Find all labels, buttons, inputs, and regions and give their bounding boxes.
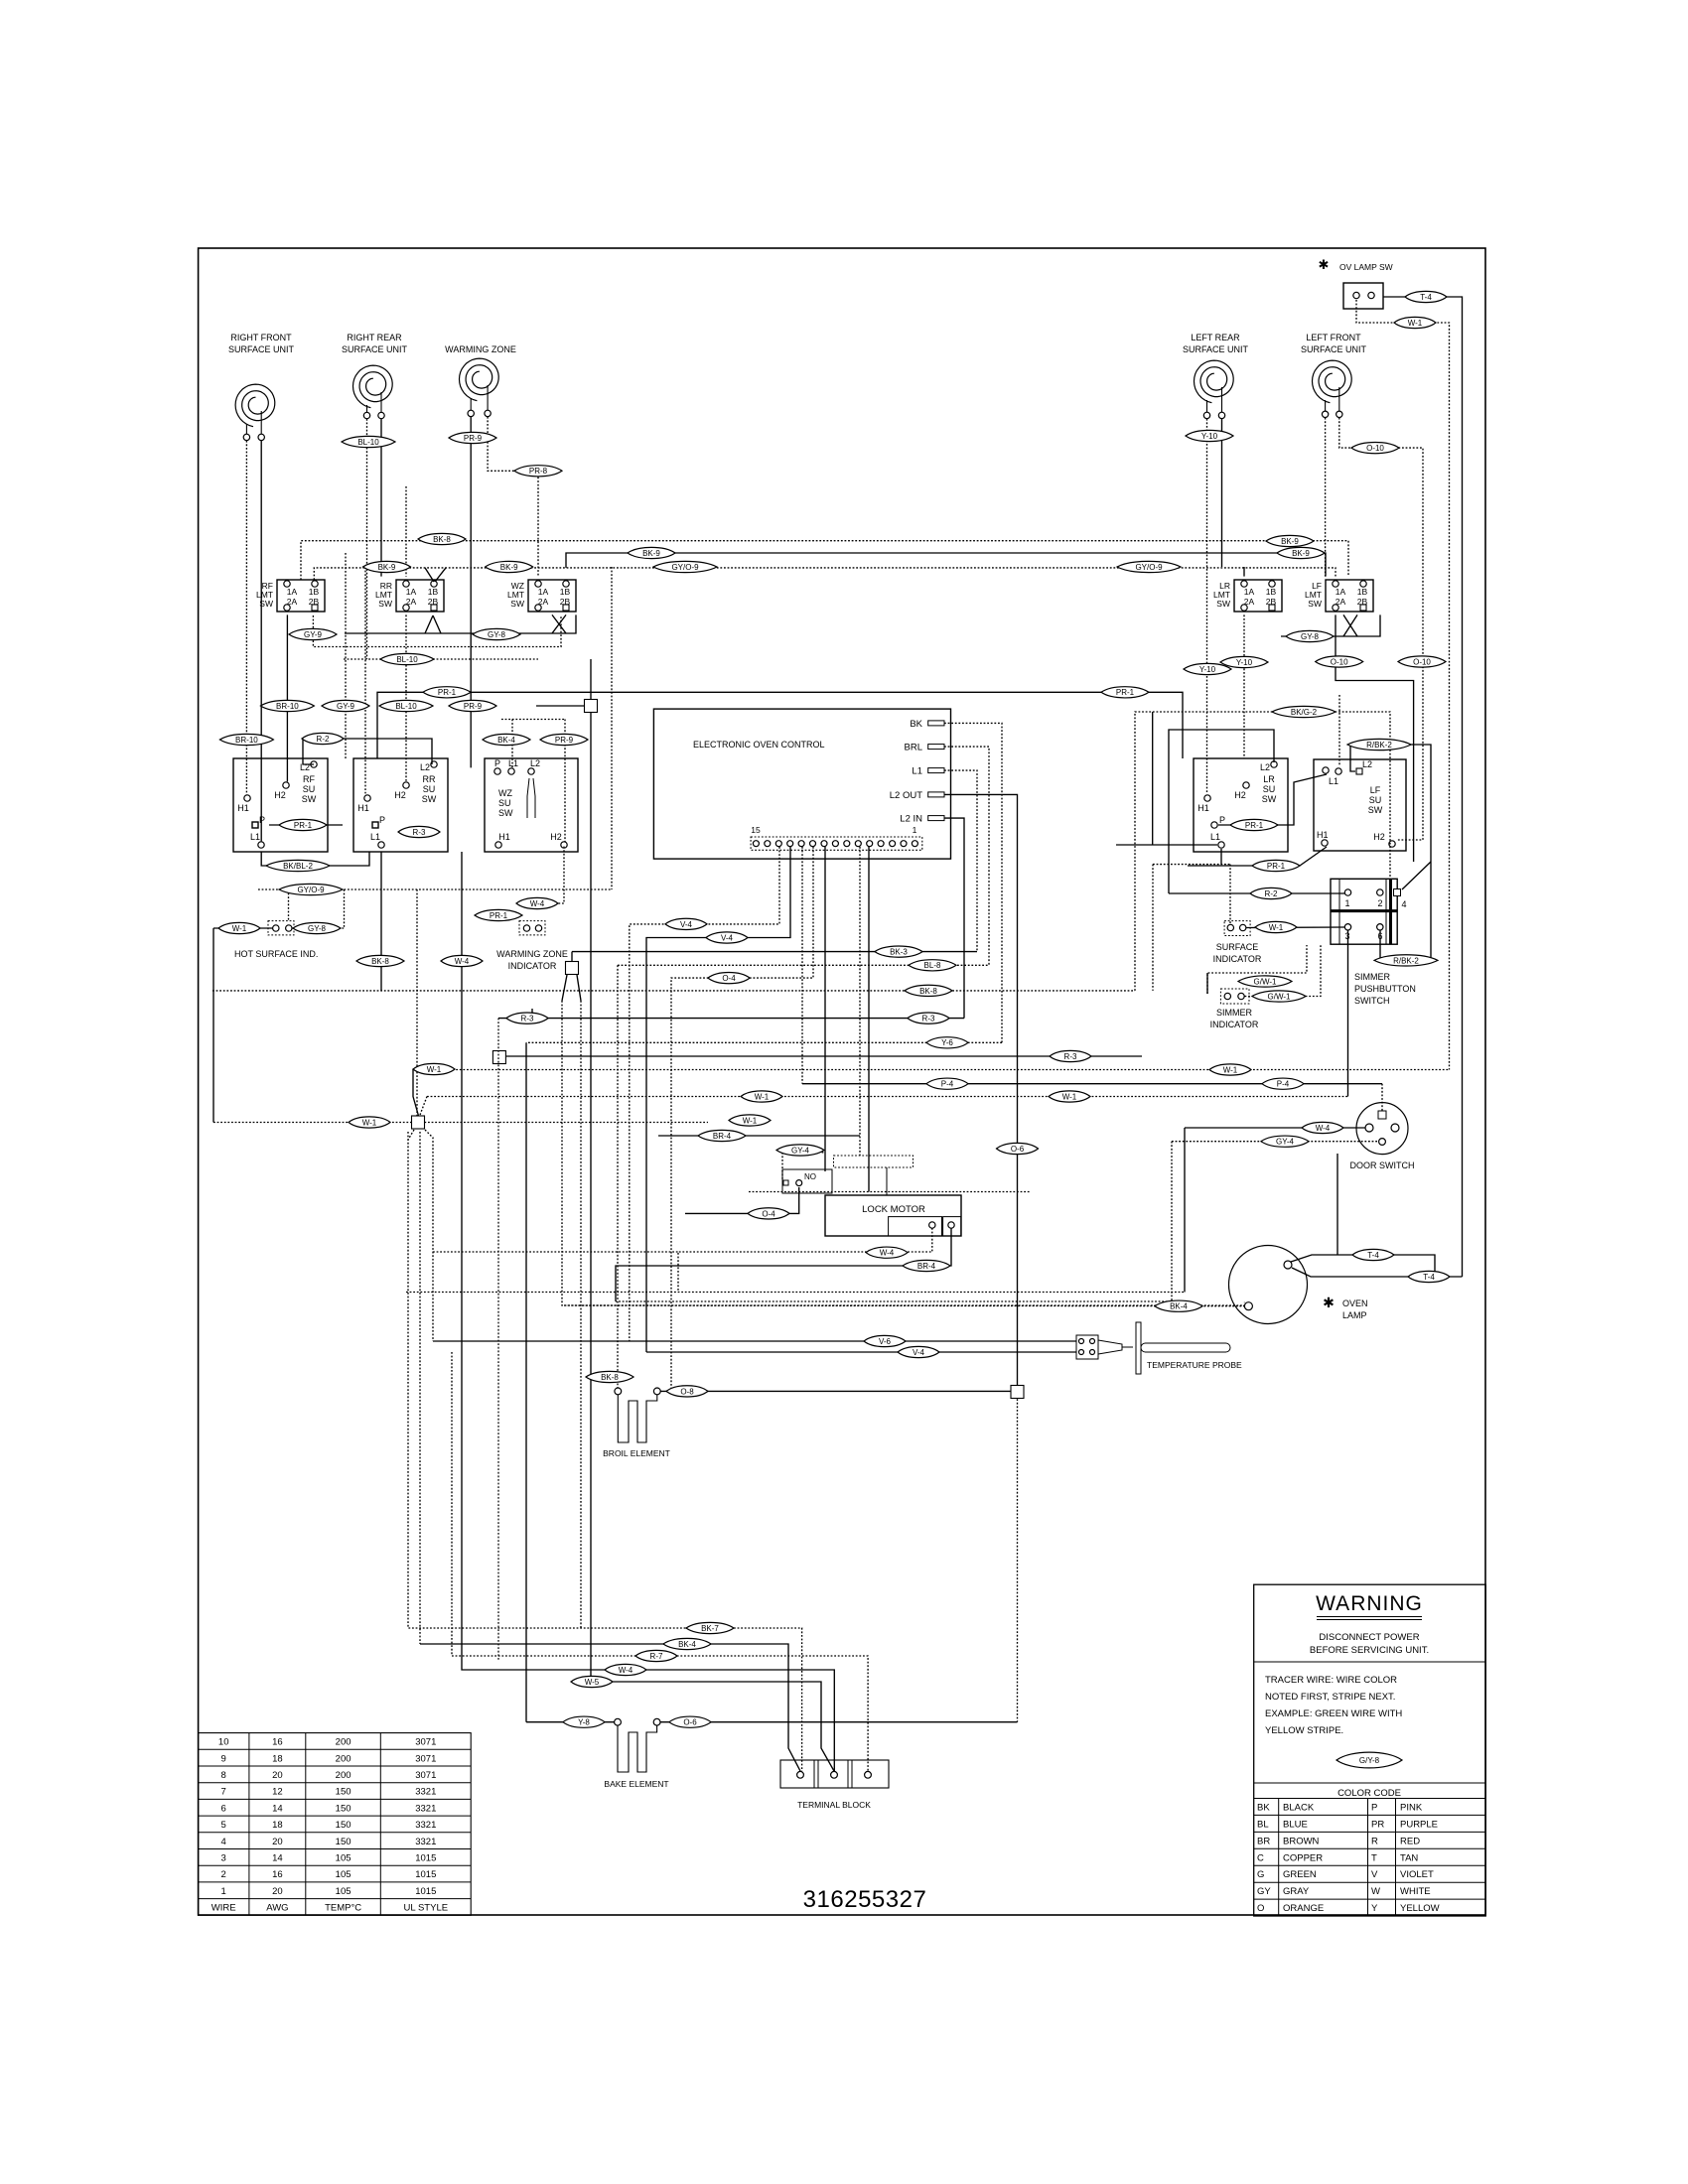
svg-text:P: P bbox=[1371, 1803, 1377, 1814]
svg-text:P: P bbox=[379, 815, 385, 825]
wire BL-10 low segment bbox=[344, 658, 538, 660]
wire label R/BK-2 bbox=[1347, 739, 1411, 750]
wire label BR-10 bbox=[219, 734, 273, 745]
electronic oven control U1 bbox=[653, 709, 950, 859]
wire BK from EOC bbox=[944, 723, 1002, 1042]
svg-text:GY: GY bbox=[1257, 1886, 1271, 1897]
wire 585 down bbox=[580, 1001, 582, 1628]
svg-text:V-6: V-6 bbox=[879, 1337, 892, 1346]
svg-text:O-4: O-4 bbox=[762, 1209, 775, 1218]
svg-text:PR: PR bbox=[1371, 1819, 1384, 1830]
svg-text:G: G bbox=[1257, 1869, 1264, 1880]
svg-text:WIRE: WIRE bbox=[211, 1903, 236, 1914]
wire label P-4 bbox=[1262, 1078, 1304, 1089]
wire BK-7 bbox=[408, 1132, 802, 1771]
svg-text:W-1: W-1 bbox=[1269, 923, 1284, 932]
wire W-4 bottom bbox=[462, 852, 834, 1771]
wire label R/BK-2 bbox=[1374, 955, 1438, 966]
hot surface indicator bbox=[234, 921, 318, 959]
svg-text:LR: LR bbox=[1263, 774, 1275, 784]
wire T-4 lamp upper bbox=[1291, 1255, 1435, 1277]
svg-text:W-1: W-1 bbox=[1408, 319, 1423, 328]
svg-text:LEFT REAR: LEFT REAR bbox=[1191, 333, 1240, 342]
svg-text:PR-1: PR-1 bbox=[1267, 862, 1286, 871]
svg-text:SURFACE UNIT: SURFACE UNIT bbox=[228, 344, 295, 354]
svg-text:RED: RED bbox=[1400, 1836, 1420, 1846]
wire W-1 funnel bbox=[413, 1069, 419, 1116]
wire BK-4 bottom vertical bbox=[419, 1132, 421, 1644]
svg-text:R-3: R-3 bbox=[413, 828, 426, 837]
wire funnel junction legs bbox=[408, 1130, 414, 1140]
wire label BR-10 bbox=[260, 700, 314, 711]
svg-text:SW: SW bbox=[422, 794, 437, 804]
wire simmer pin3 drop bbox=[1347, 930, 1349, 1097]
wire BL-10 RR limit to H2 bbox=[405, 614, 407, 781]
svg-text:BLUE: BLUE bbox=[1283, 1819, 1308, 1830]
wire LF L1 drop bbox=[1338, 695, 1340, 766]
wire label R-3 bbox=[398, 826, 440, 837]
svg-text:P-4: P-4 bbox=[941, 1080, 954, 1089]
svg-text:BR: BR bbox=[1257, 1836, 1270, 1846]
LF limit switch bbox=[1305, 580, 1373, 612]
svg-text:O-10: O-10 bbox=[1366, 444, 1384, 453]
svg-text:105: 105 bbox=[336, 1869, 352, 1880]
svg-text:1B: 1B bbox=[560, 587, 571, 597]
svg-text:1015: 1015 bbox=[415, 1886, 436, 1897]
svg-text:316255327: 316255327 bbox=[803, 1886, 927, 1913]
svg-text:20: 20 bbox=[272, 1886, 283, 1897]
wire label BK-8 bbox=[905, 985, 952, 996]
svg-text:WZ: WZ bbox=[498, 788, 512, 798]
svg-text:GY-4: GY-4 bbox=[791, 1146, 809, 1155]
wire BR-4 seg bbox=[658, 1135, 860, 1137]
svg-text:GY-9: GY-9 bbox=[337, 702, 354, 711]
svg-text:COLOR CODE: COLOR CODE bbox=[1337, 1788, 1401, 1799]
wire PR-4 dotted link bbox=[1153, 864, 1230, 866]
wire V-4 t13 bbox=[630, 847, 779, 1341]
svg-text:RR: RR bbox=[423, 774, 436, 784]
wire LR coil right lead bbox=[1221, 419, 1223, 567]
svg-text:R-3: R-3 bbox=[521, 1015, 534, 1024]
wire W-1 junction bus bbox=[213, 1122, 708, 1124]
svg-text:Y-8: Y-8 bbox=[578, 1718, 590, 1727]
svg-text:3071: 3071 bbox=[415, 1737, 436, 1748]
svg-text:BR-10: BR-10 bbox=[235, 736, 258, 745]
wire RR 2B tent b bbox=[433, 615, 441, 633]
svg-text:1015: 1015 bbox=[415, 1869, 436, 1880]
wire BRL from EOC bbox=[944, 747, 989, 965]
lock motor bbox=[782, 1156, 961, 1236]
wire drop LR 1A bbox=[1243, 567, 1245, 577]
wire BK-9 bus bbox=[566, 553, 1326, 577]
svg-text:R-3: R-3 bbox=[922, 1015, 935, 1024]
svg-text:SWITCH: SWITCH bbox=[1354, 996, 1390, 1006]
svg-text:SU: SU bbox=[1369, 795, 1382, 805]
svg-text:BL-10: BL-10 bbox=[357, 438, 379, 447]
svg-text:9: 9 bbox=[221, 1753, 226, 1764]
svg-text:BL-10: BL-10 bbox=[396, 655, 418, 664]
svg-text:H2: H2 bbox=[394, 790, 406, 800]
svg-text:DOOR SWITCH: DOOR SWITCH bbox=[1350, 1160, 1415, 1170]
svg-text:1B: 1B bbox=[1266, 587, 1277, 597]
svg-text:3: 3 bbox=[221, 1853, 226, 1864]
wire WZ coil right lead to PR-8 bbox=[488, 417, 538, 577]
wire door leg bbox=[1336, 1154, 1338, 1255]
wire PR-1 LR P to LF P bbox=[1218, 774, 1327, 825]
svg-text:200: 200 bbox=[336, 1737, 352, 1748]
right front surface unit coil bbox=[228, 333, 295, 441]
svg-text:LOCK MOTOR: LOCK MOTOR bbox=[862, 1204, 925, 1215]
svg-text:O-10: O-10 bbox=[1413, 657, 1431, 666]
svg-text:WHITE: WHITE bbox=[1400, 1886, 1431, 1897]
svg-text:BK-3: BK-3 bbox=[890, 948, 908, 957]
svg-text:Y: Y bbox=[1371, 1903, 1378, 1914]
svg-text:COPPER: COPPER bbox=[1283, 1852, 1323, 1863]
wire W-1 hot surface bbox=[213, 927, 273, 929]
svg-text:W-1: W-1 bbox=[427, 1065, 442, 1074]
oven lamp switch bbox=[1319, 257, 1393, 309]
svg-text:LAMP: LAMP bbox=[1342, 1310, 1367, 1320]
svg-text:BROWN: BROWN bbox=[1283, 1836, 1320, 1846]
svg-text:R-7: R-7 bbox=[650, 1652, 663, 1661]
svg-text:T-4: T-4 bbox=[1420, 293, 1432, 302]
wire label O-4 bbox=[708, 972, 750, 983]
wire label BL-10 bbox=[379, 700, 433, 711]
svg-text:T-4: T-4 bbox=[1423, 1273, 1435, 1282]
wire G/W-1 lower bbox=[1245, 945, 1322, 997]
wire junction drop bbox=[591, 659, 834, 1771]
svg-text:SU: SU bbox=[498, 798, 511, 808]
svg-text:W-1: W-1 bbox=[1223, 1065, 1238, 1074]
wire label V-6 bbox=[864, 1335, 906, 1346]
wire label T-4 bbox=[1405, 291, 1447, 302]
svg-text:150: 150 bbox=[336, 1820, 352, 1831]
RF surface unit switch bbox=[233, 758, 328, 852]
wire label BK-4 bbox=[1155, 1300, 1202, 1311]
wire T-4 lamp lower bbox=[1292, 1268, 1463, 1277]
svg-text:2B: 2B bbox=[560, 597, 571, 607]
RR limit switch bbox=[375, 580, 444, 612]
wire V-4 t12 bbox=[646, 847, 790, 1352]
svg-text:R: R bbox=[1371, 1836, 1378, 1846]
svg-text:V: V bbox=[1371, 1869, 1378, 1880]
wire X cross RR top a bbox=[425, 568, 434, 582]
wire R/BK-2 top bbox=[1350, 745, 1431, 959]
wire PR-1 lower link bbox=[1188, 847, 1327, 866]
wire GY-4 door drop bbox=[616, 1142, 1172, 1301]
svg-text:BK-9: BK-9 bbox=[378, 563, 396, 572]
svg-text:18: 18 bbox=[272, 1820, 283, 1831]
svg-text:WARMING ZONE: WARMING ZONE bbox=[496, 949, 568, 959]
broil element bbox=[603, 1388, 670, 1458]
wire label W-4 bbox=[516, 897, 558, 908]
wire label V-4 bbox=[706, 932, 748, 943]
svg-text:W-4: W-4 bbox=[455, 957, 470, 966]
svg-text:2: 2 bbox=[221, 1869, 226, 1880]
wire BK-8 drop bbox=[380, 852, 382, 991]
wire label V-4 bbox=[898, 1346, 939, 1357]
wire junction D feed bbox=[416, 889, 418, 1117]
svg-text:SU: SU bbox=[423, 784, 436, 794]
svg-text:1: 1 bbox=[913, 825, 917, 835]
svg-text:✱: ✱ bbox=[1323, 1295, 1335, 1310]
wire T-4 from oven lamp switch bbox=[1383, 297, 1463, 1277]
svg-text:W-1: W-1 bbox=[1062, 1092, 1077, 1101]
wire label O-10 bbox=[1398, 656, 1446, 667]
svg-text:W-4: W-4 bbox=[530, 899, 545, 908]
svg-text:L1: L1 bbox=[370, 832, 380, 842]
svg-text:TEMPERATURE PROBE: TEMPERATURE PROBE bbox=[1147, 1360, 1242, 1370]
wire label V-4 bbox=[665, 918, 707, 929]
svg-text:G/W-1: G/W-1 bbox=[1268, 992, 1292, 1001]
wire door switch stem bbox=[1381, 1084, 1383, 1111]
svg-text:P: P bbox=[259, 815, 265, 825]
wire label O-6 bbox=[997, 1143, 1039, 1154]
svg-text:8: 8 bbox=[221, 1770, 226, 1781]
wire label BL-10 bbox=[380, 653, 434, 664]
svg-text:1A: 1A bbox=[287, 587, 298, 597]
svg-text:3321: 3321 bbox=[415, 1803, 436, 1814]
svg-text:SW: SW bbox=[1262, 794, 1277, 804]
left rear surface unit coil bbox=[1183, 333, 1249, 419]
wire label R-3 bbox=[506, 1013, 548, 1024]
svg-text:LEFT FRONT: LEFT FRONT bbox=[1306, 333, 1361, 342]
wire W-4 lock bbox=[678, 1228, 932, 1293]
svg-text:2A: 2A bbox=[287, 597, 298, 607]
wire Y-8 bake left bbox=[526, 1721, 615, 1723]
wire BL-8 bus bbox=[618, 964, 989, 966]
wire label W-1 bbox=[349, 1117, 390, 1128]
svg-text:16: 16 bbox=[272, 1737, 283, 1748]
wire simmer pin4 diag bbox=[1402, 862, 1431, 889]
svg-text:P: P bbox=[1219, 815, 1225, 825]
junction node D bbox=[412, 1116, 425, 1129]
wire LF coil left lead bbox=[1325, 418, 1327, 577]
wire label W-1 bbox=[729, 1115, 771, 1126]
wire label Y-8 bbox=[563, 1716, 605, 1727]
svg-text:L1: L1 bbox=[1210, 832, 1220, 842]
svg-text:BLACK: BLACK bbox=[1283, 1803, 1315, 1814]
svg-text:O-4: O-4 bbox=[722, 974, 736, 983]
wire label O-10 bbox=[1351, 442, 1399, 453]
svg-text:18: 18 bbox=[272, 1753, 283, 1764]
svg-text:TAN: TAN bbox=[1400, 1852, 1418, 1863]
svg-text:R-3: R-3 bbox=[1064, 1052, 1077, 1061]
svg-text:BK-8: BK-8 bbox=[371, 957, 389, 966]
svg-text:L1: L1 bbox=[250, 832, 260, 842]
wire label W-4 bbox=[441, 955, 483, 966]
svg-text:TERMINAL BLOCK: TERMINAL BLOCK bbox=[797, 1800, 871, 1810]
wire GY-9 vertical bbox=[345, 553, 347, 758]
wire label BK-3 bbox=[875, 946, 922, 957]
svg-text:ORANGE: ORANGE bbox=[1283, 1903, 1324, 1914]
wire label PR-9 bbox=[449, 432, 496, 443]
wire label BK/G-2 bbox=[1272, 706, 1336, 717]
wire R-2 bus bbox=[1169, 892, 1344, 894]
wire W-1 from oven lamp switch bbox=[1356, 300, 1450, 1070]
svg-text:EXAMPLE: GREEN WIRE WITH: EXAMPLE: GREEN WIRE WITH bbox=[1265, 1708, 1402, 1719]
junction node A bbox=[585, 700, 598, 713]
svg-text:GY/O-9: GY/O-9 bbox=[297, 886, 325, 894]
svg-text:R/BK-2: R/BK-2 bbox=[1366, 741, 1392, 750]
oven lamp bbox=[1229, 1246, 1368, 1324]
wire gauge table bbox=[199, 1733, 472, 1916]
svg-text:150: 150 bbox=[336, 1787, 352, 1798]
wire label Y-10 bbox=[1184, 663, 1231, 674]
svg-text:BK-8: BK-8 bbox=[919, 987, 937, 996]
wire label PR-1 bbox=[423, 687, 471, 698]
svg-text:2B: 2B bbox=[309, 597, 320, 607]
svg-text:R/BK-2: R/BK-2 bbox=[1393, 956, 1419, 965]
wire loop 3 riser bbox=[1152, 712, 1154, 845]
svg-text:105: 105 bbox=[336, 1853, 352, 1864]
svg-text:PR-9: PR-9 bbox=[464, 702, 483, 711]
wire label BK-9 bbox=[486, 561, 533, 572]
svg-text:TEMP°C: TEMP°C bbox=[325, 1903, 361, 1914]
svg-text:2B: 2B bbox=[428, 597, 439, 607]
wire label T-4 bbox=[1408, 1271, 1450, 1282]
svg-text:BK-9: BK-9 bbox=[1292, 549, 1310, 558]
svg-text:SURFACE UNIT: SURFACE UNIT bbox=[1301, 344, 1367, 354]
wire label W-1 bbox=[1049, 1091, 1090, 1102]
wire BR-4 lock bbox=[616, 1228, 951, 1301]
svg-text:1A: 1A bbox=[1336, 587, 1346, 597]
svg-text:H1: H1 bbox=[1197, 803, 1209, 813]
wire label BK-8 bbox=[356, 955, 404, 966]
svg-text:GRAY: GRAY bbox=[1283, 1886, 1310, 1897]
svg-text:O-6: O-6 bbox=[683, 1718, 697, 1727]
svg-text:150: 150 bbox=[336, 1837, 352, 1847]
wire t6 cam bbox=[859, 847, 861, 1156]
wire label BK-9 bbox=[1266, 535, 1314, 546]
wire label T-4 bbox=[1352, 1249, 1394, 1260]
svg-text:H1: H1 bbox=[498, 832, 510, 842]
wire RR H1 stub bbox=[364, 567, 366, 793]
wire surface indicator feed bbox=[1229, 865, 1231, 924]
svg-text:Y-10: Y-10 bbox=[1236, 658, 1253, 667]
svg-text:2A: 2A bbox=[1244, 597, 1255, 607]
wire RR coil right lead bbox=[380, 419, 382, 577]
svg-text:SW: SW bbox=[302, 794, 317, 804]
svg-text:UL STYLE: UL STYLE bbox=[404, 1903, 449, 1914]
wire V-6 probe bbox=[433, 1340, 1076, 1342]
svg-text:H2: H2 bbox=[1373, 832, 1385, 842]
wire drops to limit switch tops bbox=[405, 486, 407, 577]
svg-text:1B: 1B bbox=[309, 587, 320, 597]
svg-text:G/Y-8: G/Y-8 bbox=[1359, 1756, 1380, 1765]
junction node E bbox=[1011, 1386, 1024, 1399]
junction node C bbox=[492, 1051, 505, 1064]
wire junction A cross bbox=[536, 705, 592, 707]
wire label GY-8 bbox=[293, 922, 341, 933]
surface indicator bbox=[1213, 921, 1262, 964]
svg-text:3321: 3321 bbox=[415, 1787, 436, 1798]
svg-text:PR-1: PR-1 bbox=[438, 688, 457, 697]
simmer indicator bbox=[1210, 989, 1259, 1029]
svg-text:1B: 1B bbox=[428, 587, 439, 597]
svg-text:GY-8: GY-8 bbox=[308, 924, 326, 933]
wire X cross LF b bbox=[1343, 614, 1357, 636]
svg-text:GY-8: GY-8 bbox=[1301, 632, 1319, 641]
wire GY-8 hot surface bbox=[292, 927, 345, 929]
wire R-3 warming bbox=[531, 1009, 533, 1020]
left front surface unit coil bbox=[1301, 333, 1367, 417]
svg-text:BK/BL-2: BK/BL-2 bbox=[283, 862, 313, 871]
wire GY-8 riser bbox=[344, 889, 346, 928]
wire label PR-1 bbox=[279, 819, 327, 830]
svg-text:GY-4: GY-4 bbox=[1276, 1138, 1294, 1147]
svg-text:1A: 1A bbox=[406, 587, 417, 597]
wire label BK-8 bbox=[586, 1371, 633, 1382]
wire O-4 t10 bbox=[671, 847, 813, 1392]
svg-text:PR-1: PR-1 bbox=[1245, 821, 1264, 830]
wire label R-2 bbox=[1250, 887, 1292, 898]
wire label GY-8 bbox=[1286, 630, 1334, 641]
svg-text:SURFACE UNIT: SURFACE UNIT bbox=[342, 344, 408, 354]
wire label BL-10 bbox=[342, 436, 395, 447]
svg-text:PR-1: PR-1 bbox=[294, 821, 313, 830]
svg-text:SIMMER: SIMMER bbox=[1354, 972, 1391, 982]
wire O-4 lock bbox=[685, 1187, 799, 1213]
wire label W-1 bbox=[1394, 317, 1436, 328]
wire O-6 vert oval host bbox=[1014, 1148, 1016, 1150]
wire V-4 probe bbox=[646, 1351, 1076, 1353]
wire dotted 1200 bbox=[749, 1191, 1030, 1193]
svg-text:Y-10: Y-10 bbox=[1201, 432, 1218, 441]
wire W-4 door drop bbox=[1184, 1128, 1186, 1293]
wire label BK/BL-2 bbox=[266, 860, 330, 871]
svg-text:200: 200 bbox=[336, 1770, 352, 1781]
svg-text:PR-9: PR-9 bbox=[464, 434, 483, 443]
warming zone coil bbox=[445, 344, 516, 417]
door switch bbox=[1350, 1103, 1415, 1170]
svg-text:R-2: R-2 bbox=[1265, 889, 1278, 898]
svg-text:W-1: W-1 bbox=[755, 1092, 770, 1101]
svg-text:H1: H1 bbox=[237, 803, 249, 813]
svg-text:YELLOW STRIPE.: YELLOW STRIPE. bbox=[1265, 1725, 1343, 1736]
wire GY/O-9 drop to indicator bbox=[288, 889, 290, 920]
svg-text:200: 200 bbox=[336, 1753, 352, 1764]
wire label PR-1 bbox=[1101, 687, 1149, 698]
svg-text:14: 14 bbox=[272, 1803, 283, 1814]
wire label O-4 bbox=[748, 1208, 789, 1219]
wire label W-5 bbox=[571, 1676, 613, 1687]
wire label Y-6 bbox=[926, 1037, 968, 1048]
wire LR limit drop bbox=[1243, 614, 1245, 758]
svg-text:1: 1 bbox=[1344, 898, 1349, 908]
svg-text:BR-4: BR-4 bbox=[917, 1262, 936, 1271]
wire PR-1 warming ind bbox=[477, 914, 519, 916]
wire BK-8 long bus bbox=[212, 990, 1135, 992]
svg-text:SU: SU bbox=[303, 784, 316, 794]
wire t9 GY-4 bbox=[824, 847, 826, 1171]
svg-text:RIGHT REAR: RIGHT REAR bbox=[347, 333, 402, 342]
svg-text:SIMMER: SIMMER bbox=[1216, 1008, 1253, 1018]
svg-text:BK-8: BK-8 bbox=[601, 1373, 619, 1382]
svg-text:YELLOW: YELLOW bbox=[1400, 1903, 1440, 1914]
svg-text:W-4: W-4 bbox=[880, 1249, 895, 1258]
wire label W-1 bbox=[413, 1063, 455, 1074]
wire 576 up bbox=[571, 952, 573, 961]
svg-text:PUSHBUTTON: PUSHBUTTON bbox=[1354, 984, 1416, 994]
svg-text:OVEN: OVEN bbox=[1342, 1298, 1368, 1308]
svg-text:SW: SW bbox=[498, 808, 513, 818]
svg-text:W-1: W-1 bbox=[232, 924, 247, 933]
wire BK-4 bottom bbox=[420, 1644, 800, 1771]
wire loop 3 bbox=[1116, 844, 1217, 846]
wire BK-4 vertical bbox=[511, 720, 513, 768]
wire BR-10 RF limit to H2 bbox=[286, 614, 288, 781]
